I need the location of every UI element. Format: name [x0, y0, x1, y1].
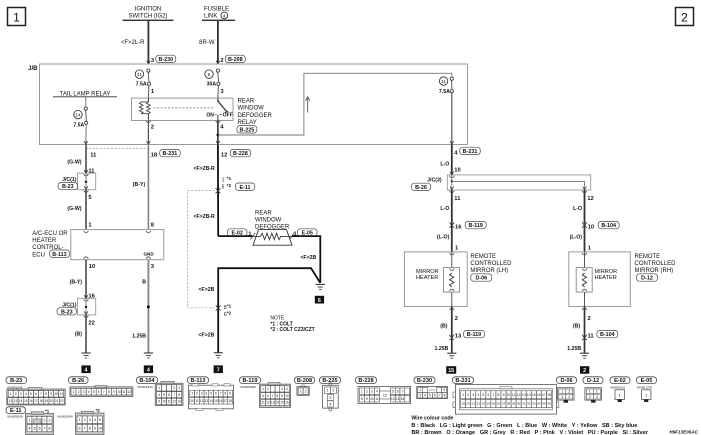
svg-text:1: 1 [158, 386, 160, 390]
relay linkage dashed [154, 107, 214, 109]
svg-text:12: 12 [517, 393, 521, 397]
wire B-Y ECU pin10 to J/C(1) [70, 260, 96, 300]
svg-text:6: 6 [39, 427, 41, 431]
svg-text:<F>2B-R: <F>2B-R [193, 166, 215, 172]
svg-text:1: 1 [73, 390, 75, 394]
svg-text:4: 4 [568, 395, 570, 399]
junction block J/B [28, 64, 467, 145]
svg-text:17: 17 [542, 393, 546, 397]
ground 4 middle [144, 353, 153, 374]
svg-text:2: 2 [15, 392, 17, 396]
svg-text:B: B [142, 279, 146, 285]
svg-text:B-119: B-119 [243, 378, 258, 384]
svg-text:D-12: D-12 [587, 378, 599, 384]
svg-text:11: 11 [441, 79, 446, 85]
rear window defogger name [255, 210, 290, 230]
svg-text:10: 10 [89, 264, 95, 270]
wire 2B branch to ground 7 [199, 268, 321, 352]
svg-text:16: 16 [285, 401, 289, 405]
svg-text:2: 2 [151, 124, 154, 130]
svg-text:10: 10 [54, 392, 58, 396]
svg-text:14: 14 [396, 397, 400, 401]
svg-text:(L-O): (L-O) [570, 234, 583, 240]
svg-text:3: 3 [83, 390, 85, 394]
ECU name text [32, 231, 69, 259]
svg-text:6: 6 [267, 394, 269, 398]
ground 2 [580, 353, 589, 374]
svg-text:19: 19 [45, 399, 49, 403]
svg-text:10: 10 [507, 393, 511, 397]
svg-text:28: 28 [507, 402, 511, 406]
connector B-208 pin 2 [216, 55, 245, 64]
wire L-O to RH mirror [570, 234, 592, 251]
svg-text:31: 31 [522, 402, 526, 406]
svg-text:1: 1 [419, 388, 421, 392]
svg-text:3: 3 [49, 418, 51, 422]
connector D-12 pinout [583, 377, 603, 384]
svg-text:12: 12 [9, 399, 13, 403]
svg-text:BR : Brown O : Orange GR :: BR : Brown O : Orange GR : Grey R : Red … [411, 430, 648, 435]
svg-text:5: 5 [210, 392, 212, 396]
svg-text:(B-Y): (B-Y) [133, 182, 146, 188]
connector B-230 pin 3 [147, 55, 176, 64]
J/B internal branch to fuse 11 [218, 73, 452, 135]
svg-text:3: 3 [89, 418, 91, 422]
svg-text:B-230: B-230 [417, 378, 432, 384]
svg-text:4: 4 [223, 13, 226, 18]
svg-text:14: 14 [75, 113, 81, 119]
svg-text:14: 14 [276, 401, 280, 405]
svg-text:L-O: L-O [440, 161, 449, 167]
svg-text:14: 14 [527, 393, 531, 397]
svg-text:27: 27 [502, 402, 506, 406]
svg-text:4: 4 [29, 427, 31, 431]
svg-text:9: 9 [158, 400, 160, 404]
wire colour code legend [411, 416, 648, 435]
svg-text:B-225: B-225 [240, 127, 255, 133]
svg-text:2: 2 [596, 390, 598, 394]
svg-text:IGNITION: IGNITION [135, 7, 162, 13]
svg-text:9: 9 [113, 390, 115, 394]
svg-text:1: 1 [561, 390, 563, 394]
connector E-11 pinout variant 2 [58, 408, 105, 435]
svg-text:5: 5 [34, 427, 36, 431]
svg-text:15: 15 [448, 368, 454, 374]
svg-text:J/B: J/B [28, 66, 38, 72]
svg-text:11: 11 [90, 153, 97, 159]
svg-text:2: 2 [588, 316, 591, 322]
svg-text:(B): (B) [440, 324, 447, 330]
svg-text:B-23: B-23 [62, 184, 74, 190]
svg-text:MU801940: MU801940 [58, 415, 73, 419]
svg-text:6: 6 [208, 72, 211, 78]
junction connector J/C(1) B-23 upper [58, 170, 96, 192]
svg-text:ON: ON [206, 112, 214, 118]
svg-text:5: 5 [392, 390, 394, 394]
svg-text:B-231: B-231 [463, 149, 478, 155]
svg-text:10: 10 [454, 167, 460, 173]
svg-text:7: 7 [84, 426, 86, 430]
svg-text:2: 2 [220, 58, 223, 64]
svg-text:REMOTE: REMOTE [470, 254, 496, 260]
connector B-230 pinout [414, 377, 435, 384]
svg-text:22: 22 [477, 402, 481, 406]
svg-text:2: 2 [84, 418, 86, 422]
svg-text:7: 7 [40, 392, 42, 396]
svg-text:E-05: E-05 [641, 378, 653, 384]
node pin 4 B-231 right [454, 147, 480, 156]
svg-text:10: 10 [98, 426, 102, 430]
svg-text:OFF: OFF [223, 112, 233, 118]
svg-text:15: 15 [280, 401, 284, 405]
svg-text:1: 1 [589, 390, 591, 394]
svg-text:15: 15 [532, 393, 536, 397]
svg-text:5: 5 [99, 418, 101, 422]
fuse 41 7.5A [135, 69, 155, 98]
rear window defogger relay B-225 [132, 98, 234, 120]
svg-text:8: 8 [225, 392, 227, 396]
svg-text:D-06: D-06 [560, 378, 572, 384]
svg-text:18: 18 [228, 399, 232, 403]
RH mirror name [635, 254, 677, 282]
svg-text:9: 9 [503, 393, 505, 397]
connector B-231 pinout [453, 377, 474, 384]
fuse 6 30A [205, 69, 225, 98]
svg-text:8R-W: 8R-W [199, 40, 215, 46]
svg-text:5: 5 [262, 394, 264, 398]
svg-text:B-113: B-113 [52, 252, 66, 258]
wire 2L-R ignition feed [121, 21, 149, 64]
svg-text:1: 1 [29, 418, 31, 422]
svg-text:2: 2 [568, 390, 570, 394]
svg-text:10: 10 [190, 399, 194, 403]
svg-text:(L-O): (L-O) [437, 234, 450, 240]
connector E-05 pin 1 [294, 229, 318, 238]
svg-text:22: 22 [88, 321, 94, 327]
relay switch [206, 98, 232, 120]
svg-text:11: 11 [167, 400, 171, 404]
svg-text:7: 7 [103, 390, 105, 394]
svg-text:12: 12 [587, 196, 593, 202]
svg-text:1: 1 [13, 11, 20, 25]
svg-text:30A: 30A [207, 81, 217, 87]
svg-text:MU802121: MU802121 [611, 386, 626, 390]
svg-text:16: 16 [29, 399, 33, 403]
svg-text:ECU: ECU [32, 252, 45, 258]
svg-text:8: 8 [361, 397, 363, 401]
svg-text:12: 12 [383, 393, 387, 397]
relay coil [139, 98, 150, 120]
svg-text:20: 20 [50, 399, 54, 403]
svg-text:12: 12 [221, 153, 227, 159]
svg-text:<F>2L-R: <F>2L-R [121, 40, 145, 46]
svg-text:13: 13 [177, 400, 181, 404]
svg-text:6: 6 [434, 394, 436, 398]
svg-text:11: 11 [195, 399, 199, 403]
connector D-06 pinout [557, 377, 577, 384]
fuse 11 7.5A [439, 77, 454, 144]
svg-text:19: 19 [461, 402, 465, 406]
svg-text:(B): (B) [573, 324, 580, 330]
svg-text:3: 3 [371, 390, 373, 394]
svg-text:4: 4 [158, 393, 160, 397]
connector B-104 pinout [137, 377, 158, 384]
remote controlled mirror RH D-12 [569, 252, 631, 307]
svg-text:MU801270: MU801270 [637, 386, 652, 390]
svg-text:13: 13 [455, 334, 462, 340]
wire 8R-W fusible link feed [199, 21, 218, 64]
svg-text:4: 4 [376, 390, 378, 394]
svg-text:23: 23 [482, 402, 486, 406]
svg-text:1.25B: 1.25B [567, 346, 581, 352]
svg-text:MIRROR (RH): MIRROR (RH) [635, 268, 674, 274]
svg-text:2: 2 [305, 389, 307, 393]
svg-text:B-104: B-104 [601, 223, 616, 229]
svg-text:7: 7 [439, 394, 441, 398]
wire G-W tail lamp to J/C(1) [67, 145, 95, 175]
inline connector B-119 pin 16 [449, 221, 486, 230]
svg-text:1.25B: 1.25B [435, 346, 449, 352]
svg-text:CONTROLLED: CONTROLLED [635, 261, 677, 267]
svg-text:7.5A: 7.5A [136, 81, 147, 87]
svg-text:36: 36 [547, 402, 551, 406]
svg-text:(G-W): (G-W) [67, 206, 81, 212]
svg-text:RELAY: RELAY [238, 120, 257, 126]
svg-text:30: 30 [517, 402, 521, 406]
svg-text:2: 2 [78, 390, 80, 394]
wire G-W J/C(1) to ECU pin 1 [67, 190, 92, 230]
svg-text:B-230: B-230 [158, 57, 173, 63]
svg-text:3: 3 [329, 396, 331, 400]
inline connector B-104 pin 11 [567, 330, 618, 352]
svg-text:13: 13 [205, 399, 209, 403]
inline connector E-11 pins 1/5 [216, 176, 255, 194]
fuse 14 7.5A tail lamp [73, 97, 87, 144]
junction connector J/C(1) B-23 lower [57, 295, 96, 317]
wire B-Y relay pin2 to ECU pin 8 [133, 145, 155, 230]
svg-text:14: 14 [209, 399, 213, 403]
svg-text:9: 9 [50, 392, 52, 396]
svg-text:7: 7 [217, 368, 220, 374]
wire L-O to LH mirror [437, 234, 459, 251]
svg-text:B-231: B-231 [455, 378, 470, 384]
svg-text:REMOTE: REMOTE [635, 254, 661, 260]
note colt variants [270, 316, 314, 333]
svg-text:7: 7 [272, 394, 274, 398]
svg-text:MU801979: MU801979 [138, 385, 153, 389]
svg-text:B-228: B-228 [358, 378, 373, 384]
svg-text:10: 10 [117, 390, 121, 394]
svg-text:5: 5 [443, 388, 445, 392]
LH mirror name [470, 254, 512, 282]
svg-text:24: 24 [487, 402, 491, 406]
svg-text:7: 7 [220, 392, 222, 396]
svg-text:29: 29 [512, 402, 516, 406]
svg-text:WINDOW: WINDOW [238, 106, 265, 112]
wire B LH mirror to ground 15 [440, 307, 458, 353]
svg-text:6: 6 [215, 392, 217, 396]
svg-text:E-02: E-02 [614, 378, 626, 384]
svg-text:17: 17 [224, 399, 228, 403]
svg-text:DEFOGGER: DEFOGGER [238, 113, 273, 119]
svg-text:*2: *2 [227, 183, 232, 188]
svg-text:35: 35 [542, 402, 546, 406]
svg-text:1: 1 [300, 389, 302, 393]
svg-text:4: 4 [286, 387, 288, 391]
svg-text:1: 1 [191, 392, 193, 396]
svg-text:1: 1 [462, 393, 464, 397]
svg-text:7: 7 [173, 393, 175, 397]
svg-text:8: 8 [89, 426, 91, 430]
svg-text:5: 5 [429, 394, 431, 398]
svg-text:B-119: B-119 [469, 223, 483, 229]
svg-text:1: 1 [326, 389, 328, 393]
svg-text:L-O: L-O [440, 206, 449, 212]
svg-text:16: 16 [219, 399, 223, 403]
svg-text:14: 14 [19, 399, 23, 403]
connector B-23 pinout [6, 377, 27, 384]
svg-text:LINK: LINK [204, 14, 217, 20]
svg-text:8: 8 [444, 394, 446, 398]
relay pin 2 wire [146, 121, 154, 145]
svg-text:25: 25 [492, 402, 496, 406]
svg-text:<F>2B: <F>2B [199, 287, 215, 293]
svg-text:4: 4 [329, 402, 331, 406]
svg-text:SWITCH (IG2): SWITCH (IG2) [129, 14, 168, 20]
svg-text:1: 1 [79, 418, 81, 422]
svg-text:16: 16 [537, 393, 541, 397]
svg-text:4: 4 [206, 392, 208, 396]
flow arrow up beside riser [306, 97, 310, 113]
wire 2B-R J/B pin12 to E-11 [193, 145, 218, 237]
wire B RH mirror to ground 2 [573, 307, 591, 353]
relay name text [237, 98, 273, 133]
svg-text:7.5A: 7.5A [439, 89, 450, 95]
svg-text:2: 2 [267, 387, 269, 391]
svg-text:(B-Y): (B-Y) [70, 279, 83, 285]
wire B to ground 4 left [75, 315, 95, 353]
svg-text:2: 2 [681, 11, 688, 25]
svg-text:12: 12 [127, 390, 131, 394]
svg-text:<F>2B: <F>2B [199, 333, 215, 339]
svg-text:32: 32 [527, 402, 531, 406]
svg-text:15: 15 [401, 397, 405, 401]
svg-text:10: 10 [285, 394, 289, 398]
connector E-11 pinout variant 1 [6, 407, 26, 414]
svg-text:1: 1 [262, 387, 264, 391]
svg-text:7.5A: 7.5A [73, 123, 84, 129]
svg-text:18: 18 [151, 153, 158, 159]
svg-text:33: 33 [532, 402, 536, 406]
svg-text:*1: *1 [45, 408, 50, 413]
svg-text:2: 2 [196, 392, 198, 396]
connector E-02 pinout [610, 377, 630, 384]
svg-text:REAR: REAR [238, 98, 255, 104]
connector B-228 pinout [356, 377, 377, 384]
svg-text:D-12: D-12 [641, 276, 653, 282]
svg-text:6: 6 [79, 426, 81, 430]
svg-text:HEATER: HEATER [32, 238, 57, 244]
svg-text:18: 18 [40, 399, 44, 403]
wire B ECU pin3 to ground 4 [132, 260, 155, 353]
svg-text:*2 : COLT CZ3/CZT: *2 : COLT CZ3/CZT [270, 327, 314, 333]
wire L-O J/C(3) to B-104 RH [573, 190, 594, 252]
svg-text:12: 12 [172, 400, 176, 404]
svg-text:A/C-ECU OR: A/C-ECU OR [32, 231, 68, 237]
svg-text:9: 9 [366, 397, 368, 401]
svg-text:B-104: B-104 [139, 378, 155, 384]
svg-text:7: 7 [402, 390, 404, 394]
svg-text:J/C(3): J/C(3) [427, 178, 442, 184]
svg-text:4: 4 [85, 368, 88, 374]
svg-text:2: 2 [173, 386, 175, 390]
svg-text:13: 13 [14, 399, 18, 403]
svg-text:B-231: B-231 [163, 151, 178, 157]
svg-text:15: 15 [214, 399, 218, 403]
svg-text:*2: *2 [227, 310, 232, 315]
svg-text:MU801839: MU801839 [8, 415, 23, 419]
svg-text:10: 10 [588, 225, 594, 231]
svg-text:5: 5 [163, 393, 165, 397]
svg-text:2: 2 [583, 368, 586, 374]
rear window defogger element [218, 230, 294, 246]
ground 4 left [81, 353, 90, 374]
svg-text:HEATER: HEATER [416, 275, 438, 281]
svg-text:6: 6 [98, 390, 100, 394]
svg-text:H9F13E05AC: H9F13E05AC [669, 429, 698, 434]
svg-text:11: 11 [262, 401, 266, 405]
svg-text:B-26: B-26 [415, 185, 427, 191]
tail lamp relay label [53, 91, 117, 97]
A/C-ECU or heater control ECU B-113 [71, 230, 164, 260]
svg-text:L-O: L-O [573, 206, 582, 212]
junction connector J/C(3) B-26 [411, 172, 590, 193]
svg-text:6: 6 [35, 392, 37, 396]
svg-text:4: 4 [94, 418, 96, 422]
svg-text:4: 4 [88, 390, 90, 394]
svg-text:11: 11 [588, 334, 595, 340]
svg-text:3: 3 [589, 395, 591, 399]
svg-text:1.25B: 1.25B [132, 333, 146, 339]
svg-text:26: 26 [497, 402, 501, 406]
svg-text:B-228: B-228 [233, 151, 248, 157]
svg-text:CONTROLLED: CONTROLLED [470, 261, 512, 267]
svg-text:2: 2 [455, 316, 458, 322]
connector B-208 pinout [295, 377, 315, 384]
svg-text:FUSIBLE: FUSIBLE [204, 7, 229, 13]
svg-text:13: 13 [271, 401, 275, 405]
svg-text:(B): (B) [75, 331, 82, 337]
svg-text:3: 3 [201, 392, 203, 396]
connector B-26 pinout [69, 377, 89, 384]
svg-text:8: 8 [108, 390, 110, 394]
svg-text:E-11: E-11 [239, 185, 250, 191]
svg-text:B-208: B-208 [228, 57, 243, 63]
svg-text:34: 34 [537, 402, 541, 406]
svg-text:GND: GND [143, 251, 154, 256]
svg-text:7: 7 [493, 393, 495, 397]
svg-text:B-113: B-113 [191, 378, 206, 384]
svg-text:18: 18 [547, 393, 551, 397]
dashed link E-11 halves [188, 191, 215, 308]
wire 2B defogger to ground 6 [292, 236, 320, 283]
svg-text:6: 6 [397, 390, 399, 394]
page ref box 2 [676, 8, 694, 26]
connector B-113 pinout [188, 377, 209, 384]
svg-text:10: 10 [162, 400, 166, 404]
svg-text:4: 4 [25, 392, 27, 396]
svg-text:6: 6 [168, 393, 170, 397]
